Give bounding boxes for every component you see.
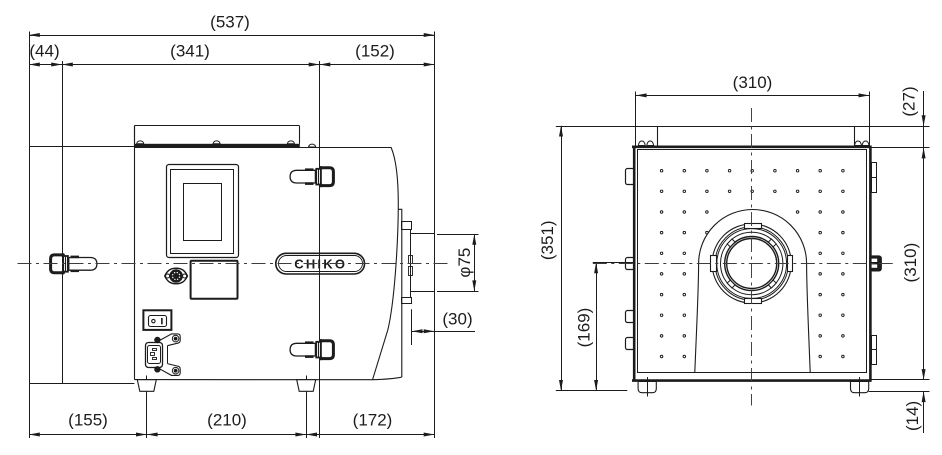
svg-text:(310): (310) (733, 73, 773, 92)
svg-text:(172): (172) (353, 411, 393, 430)
svg-text:(537): (537) (210, 13, 250, 32)
svg-text:(30): (30) (442, 309, 472, 328)
svg-text:(169): (169) (574, 308, 593, 348)
svg-text:(210): (210) (207, 411, 247, 430)
svg-text:(155): (155) (68, 411, 108, 430)
svg-text:(310): (310) (901, 243, 920, 283)
svg-text:(351): (351) (538, 220, 557, 260)
svg-text:(152): (152) (355, 42, 395, 61)
svg-text:(44): (44) (29, 42, 59, 61)
svg-text:φ75: φ75 (455, 248, 474, 278)
svg-text:(14): (14) (903, 401, 922, 431)
svg-text:(341): (341) (170, 42, 210, 61)
svg-text:(27): (27) (899, 86, 918, 116)
